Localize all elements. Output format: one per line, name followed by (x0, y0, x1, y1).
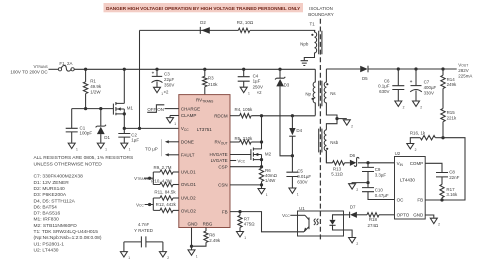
svg-text:100V TO 200V DC: 100V TO 200V DC (10, 69, 48, 74)
capacitor C9 (367, 163, 369, 167)
ground 2 (C7) (413, 101, 420, 106)
svg-text:2: 2 (403, 106, 405, 110)
svg-text:1/4W: 1/4W (265, 178, 276, 183)
svg-text:BOUNDARY: BOUNDARY (308, 12, 333, 17)
svg-text:Y RATED: Y RATED (134, 228, 153, 233)
svg-text:M1: IRF830: M1: IRF830 (34, 217, 60, 223)
wire Nsb to R13 (326, 151, 332, 163)
svg-text:CSP: CSP (218, 164, 227, 169)
resistor R3 (203, 68, 206, 71)
svg-text:350V: 350V (164, 83, 174, 88)
svg-text:R7: R7 (244, 216, 250, 221)
svg-text:D6: BAT54: D6: BAT54 (34, 204, 58, 210)
capacitor C5 (291, 156, 293, 172)
diode D7 (344, 214, 350, 216)
svg-text:1: 1 (174, 122, 176, 126)
ground 1 (C5) (289, 188, 296, 193)
svg-text:Nsb: Nsb (330, 140, 338, 145)
svg-text:F1, 2A: F1, 2A (59, 61, 72, 66)
svg-text:Np: Np (305, 91, 311, 96)
svg-text:U2: U2 (395, 151, 401, 156)
ground 1 (CLAMP) (167, 116, 174, 124)
svg-text:OFF: OFF (147, 107, 156, 112)
svg-text:2.49k: 2.49k (209, 238, 221, 243)
svg-text:C9: C9 (375, 167, 381, 172)
svg-text:UVLO2: UVLO2 (181, 196, 196, 201)
svg-text:210k: 210k (208, 82, 218, 87)
diode D4 (291, 116, 293, 128)
svg-text:D2: D2 (200, 20, 206, 25)
svg-text:LVGATE: LVGATE (211, 158, 228, 163)
svg-text:249k: 249k (447, 82, 457, 87)
diode D5 (360, 66, 368, 73)
wire LVGATE to VCC (230, 160, 236, 162)
svg-text:100pF: 100pF (80, 131, 93, 136)
ground 1 (R6) (258, 189, 265, 194)
svg-text:OC: OC (397, 198, 405, 203)
svg-text:R4, 105k: R4, 105k (235, 107, 254, 112)
svg-text:1µF: 1µF (131, 138, 139, 143)
svg-text:VCC: VCC (237, 158, 245, 163)
svg-text:C7: C7 (424, 80, 430, 85)
resistor R1 (85, 69, 87, 82)
svg-text:4.7nF: 4.7nF (138, 222, 150, 227)
svg-text:GND: GND (413, 213, 424, 218)
svg-text:2: 2 (356, 242, 358, 246)
svg-text:D2: MURS140: D2: MURS140 (34, 186, 66, 192)
ground 1 (R7) (237, 232, 244, 237)
svg-text:+: + (410, 79, 413, 84)
svg-text:VCC: VCC (136, 202, 144, 207)
svg-text:R14: R14 (447, 77, 456, 82)
svg-text:1: 1 (266, 193, 268, 197)
wire CLAMP to ground (170, 115, 179, 117)
capacitor C10 (362, 188, 374, 192)
svg-text:×2: ×2 (257, 90, 263, 95)
svg-text:FB: FB (222, 209, 228, 214)
svg-text:22µF: 22µF (164, 77, 174, 82)
svg-text:UVLO1: UVLO1 (181, 170, 196, 175)
svg-text:49.9k: 49.9k (90, 84, 102, 89)
zener D3 (278, 68, 281, 71)
svg-text:C6: C6 (384, 78, 390, 83)
svg-text:COMP: COMP (410, 161, 424, 166)
capacitor C6 (397, 69, 399, 86)
svg-text:C8: C8 (449, 169, 455, 174)
svg-text:M1: M1 (127, 106, 134, 111)
opto light arrows (314, 219, 319, 225)
svg-text:C4: C4 (253, 73, 259, 78)
svg-text:1: 1 (248, 92, 250, 96)
svg-text:GND: GND (188, 221, 199, 226)
wire FB wraparound (425, 138, 465, 200)
svg-text:R17: R17 (446, 187, 455, 192)
transistor M1 (112, 104, 114, 115)
ground 2 (opto LED) (349, 238, 356, 243)
transformer T1 winding Np (313, 69, 315, 115)
junction sec center tap (335, 117, 338, 120)
ground 1 (Y cap left) (120, 252, 127, 257)
isolation boundary dashed line (319, 19, 321, 242)
svg-text:C5: C5 (297, 168, 303, 173)
transformer T1 winding Nsb (324, 130, 326, 163)
svg-text:22nF: 22nF (449, 175, 459, 180)
svg-text:RDCM: RDCM (214, 114, 228, 119)
svg-text:330V: 330V (424, 91, 434, 96)
svg-text:Ns: Ns (330, 91, 336, 96)
svg-text:D1: D1 (104, 135, 110, 140)
zener D1 (100, 109, 102, 127)
svg-text:+: + (152, 71, 155, 76)
svg-text:U1: PS2801-1: U1: PS2801-1 (34, 241, 65, 247)
svg-text:OVLO2: OVLO2 (181, 209, 197, 214)
svg-text:UNLESS OTHERWISE NOTED: UNLESS OTHERWISE NOTED (34, 161, 103, 167)
ground 2 (Y cap right) (159, 252, 166, 257)
svg-text:R18: R18 (369, 217, 378, 222)
svg-text:274Ω: 274Ω (368, 223, 379, 228)
svg-text:1/2W: 1/2W (90, 90, 101, 95)
svg-text:RBG: RBG (203, 221, 213, 226)
svg-text:225mA: 225mA (458, 73, 472, 78)
ground 1 (C2) (121, 143, 128, 148)
svg-text:TO µP: TO µP (145, 146, 158, 151)
svg-text:1: 1 (129, 148, 131, 152)
ground 2 (C9/C10 junction) (352, 182, 368, 185)
wire GND pin (191, 228, 193, 250)
ground 1 (C1) (68, 143, 75, 148)
svg-text:400µF: 400µF (424, 85, 437, 90)
transformer T1 core (319, 31, 322, 153)
svg-text:D5: D5 (362, 76, 368, 81)
resistor R15 (441, 109, 445, 122)
wire FAULT arrow (168, 154, 179, 156)
svg-text:R13: R13 (333, 166, 342, 171)
svg-text:ISOLATION: ISOLATION (309, 6, 333, 11)
svg-text:U2: LT4430: U2: LT4430 (34, 248, 59, 254)
wire opto cathode to ground (344, 230, 353, 237)
svg-text:T1: TDK SRW24LQ-U44H015: T1: TDK SRW24LQ-U44H015 (34, 229, 99, 235)
svg-text:C10: C10 (375, 187, 384, 192)
IC LT3751 flyback controller (179, 95, 230, 228)
svg-text:LT3751: LT3751 (197, 127, 212, 132)
svg-text:×2: ×2 (164, 90, 170, 95)
svg-text:R3: R3 (208, 76, 214, 81)
capacitor C7 (415, 69, 417, 85)
svg-text:5.11Ω: 5.11Ω (331, 172, 343, 177)
svg-text:VOUT: VOUT (458, 62, 468, 67)
wire bootstrap top right (250, 29, 315, 31)
wire bootstrap top left (140, 29, 239, 31)
svg-text:2: 2 (420, 106, 422, 110)
svg-text:1: 1 (128, 256, 130, 260)
svg-text:1: 1 (105, 148, 107, 152)
warning banner (104, 3, 304, 12)
resistor R7 (239, 212, 241, 216)
svg-text:CHARGE: CHARGE (181, 106, 200, 111)
svg-text:U1: U1 (299, 206, 305, 211)
svg-text:LT4430: LT4430 (400, 177, 415, 182)
svg-text:R1: R1 (90, 78, 96, 83)
earth ground (Npb) (301, 61, 308, 66)
capacitor C4 (242, 68, 245, 71)
resistor R18 (367, 213, 379, 217)
svg-text:R8: R8 (209, 233, 215, 238)
wire main VTRANS bus (74, 68, 315, 70)
wire bootstrap vertical (139, 30, 141, 128)
svg-text:R16, 1k: R16, 1k (410, 131, 426, 136)
transformer T1 winding Ns (324, 69, 337, 119)
svg-text:D7: BAS516: D7: BAS516 (34, 211, 61, 217)
svg-text:CLAMP: CLAMP (181, 113, 197, 118)
ground 1 (D1) (97, 143, 104, 148)
svg-text:1µF: 1µF (253, 79, 261, 84)
resistor R17 (440, 184, 444, 197)
svg-text:D1: 12V ZENER: D1: 12V ZENER (34, 180, 70, 186)
wire CSN (230, 184, 262, 186)
svg-text:M2: M2 (265, 151, 272, 156)
svg-text:CSN: CSN (218, 183, 228, 188)
svg-text:0.01µF: 0.01µF (297, 174, 311, 179)
svg-text:1: 1 (196, 254, 198, 258)
svg-text:R11, 84.5k: R11, 84.5k (154, 190, 176, 195)
ground 1 (C3) (154, 87, 161, 92)
svg-text:D4: D4 (296, 128, 302, 133)
svg-text:DANGER HIGH VOLTAGE! OPERATION: DANGER HIGH VOLTAGE! OPERATION BY HIGH V… (106, 6, 300, 11)
opto LED (333, 215, 344, 220)
svg-text:FAULT: FAULT (181, 153, 195, 158)
svg-text:VTRANS: VTRANS (34, 64, 49, 69)
svg-text:2: 2 (356, 188, 358, 192)
resistor R6 (261, 167, 263, 169)
svg-text:0.1µF: 0.1µF (378, 84, 390, 89)
wire VCC rail (124, 127, 179, 129)
svg-text:1: 1 (76, 148, 78, 152)
svg-text:ON: ON (157, 107, 164, 112)
ground 1 (GND pin) (188, 250, 195, 255)
svg-text:FB: FB (417, 198, 423, 203)
capacitor C2 (123, 128, 125, 133)
svg-text:R2, 10Ω: R2, 10Ω (237, 20, 254, 25)
wire CSP (230, 166, 262, 168)
wire U2 GND (425, 215, 434, 218)
svg-text:282V: 282V (458, 68, 468, 73)
svg-text:2: 2 (438, 223, 440, 227)
svg-text:D7: D7 (350, 205, 356, 210)
resistor R13 (333, 161, 345, 165)
ground 1 (C4) (240, 87, 247, 92)
transistor M2 (230, 154, 251, 156)
svg-text:D6: D6 (349, 153, 355, 158)
svg-text:3.16k: 3.16k (446, 192, 458, 197)
opto phototransistor (308, 217, 310, 229)
wire COMP to C8 (425, 163, 442, 172)
svg-text:475Ω: 475Ω (244, 222, 255, 227)
wire FB net (230, 212, 298, 232)
svg-text:D3: P6KE200A: D3: P6KE200A (34, 192, 67, 198)
svg-text:OVLO1: OVLO1 (181, 182, 197, 187)
svg-text:R12, 442k: R12, 442k (156, 202, 177, 207)
svg-text:1: 1 (297, 193, 299, 197)
svg-text:630V: 630V (297, 179, 307, 184)
svg-text:1: 1 (244, 236, 246, 240)
transformer T1 winding Npb (304, 30, 316, 60)
svg-text:0.47µF: 0.47µF (375, 193, 389, 198)
svg-text:630V: 630V (379, 89, 389, 94)
svg-text:HVGATE: HVGATE (210, 152, 228, 157)
svg-text:(Np:Ns:Npb:Nsb=1:2:0.08:0.08): (Np:Ns:Npb:Nsb=1:2:0.08:0.08) (34, 235, 102, 241)
svg-text:221k: 221k (447, 115, 457, 120)
resistor R8 (205, 228, 207, 232)
svg-text:R15: R15 (447, 110, 456, 115)
junction R1-bus (84, 68, 87, 71)
svg-text:3.3µF: 3.3µF (375, 173, 387, 178)
svg-text:D4, D5: STTH112A: D4, D5: STTH112A (34, 198, 76, 204)
svg-text:DONE: DONE (181, 140, 194, 145)
wire secondary output rail (326, 68, 360, 70)
svg-text:M2: STB11NM60FD: M2: STB11NM60FD (34, 223, 78, 229)
wire input to fuse (49, 68, 59, 70)
svg-text:T1: T1 (310, 22, 316, 27)
svg-text:2: 2 (415, 148, 417, 152)
wire primary lower rail (262, 115, 316, 117)
svg-text:VCC: VCC (282, 213, 290, 218)
resistor R14 (442, 69, 444, 75)
capacitor C1 (71, 109, 73, 128)
capacitor C8 (436, 173, 448, 177)
svg-text:C3: C3 (164, 72, 170, 77)
svg-text:ALL RESISTORS ARE 0805, 1% RES: ALL RESISTORS ARE 0805, 1% RESISTORS (34, 155, 135, 161)
wire gate line (72, 108, 114, 110)
wire DONE arrow (168, 141, 179, 143)
svg-text:2: 2 (351, 124, 353, 128)
svg-text:C7: 330FK400M22X38: C7: 330FK400M22X38 (34, 174, 84, 180)
svg-text:OPTO: OPTO (397, 213, 410, 218)
svg-text:Npb: Npb (300, 41, 309, 46)
svg-text:D3: D3 (284, 82, 290, 87)
ground 2 (center tap) (337, 118, 347, 120)
ground 2 (C6) (395, 101, 402, 106)
ground 2 (R16) (407, 144, 414, 149)
capacitor C3 (155, 68, 158, 71)
ground 2 (U2 GND) (430, 218, 437, 223)
svg-text:2: 2 (167, 256, 169, 260)
svg-text:R9, 2.7M: R9, 2.7M (153, 165, 171, 170)
